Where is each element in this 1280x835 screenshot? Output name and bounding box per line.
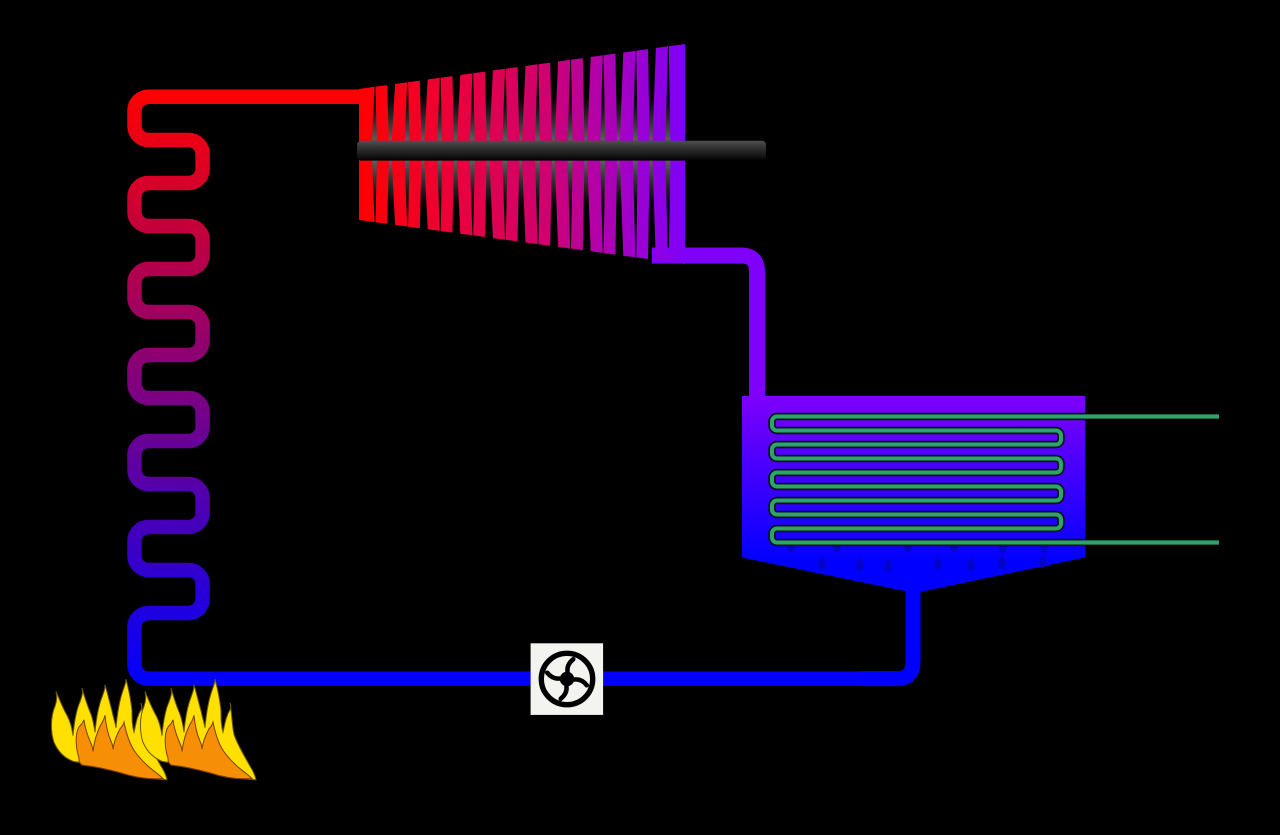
pipe: condenser outlet riser [862, 589, 913, 679]
turbine shaft [357, 141, 766, 161]
turbine U1 blades [359, 44, 685, 264]
pump P1 impeller [541, 653, 592, 704]
cooling coil outline [772, 417, 1085, 543]
flames group 2 [140, 679, 256, 780]
cooling coil [772, 417, 1085, 543]
flames group 1 [51, 679, 167, 780]
pump P1 box [531, 643, 604, 715]
turbine hub glow upper [359, 96, 685, 141]
coolant outlet line [1083, 414, 1219, 418]
pipe: steam line turbine to condenser [652, 256, 757, 401]
condensate drops [787, 538, 1048, 572]
turbine hub glow lower [359, 161, 685, 208]
coolant inlet line [1083, 540, 1219, 544]
boiler coil and feed/condensate pipe [135, 97, 881, 679]
condenser body [742, 396, 1085, 591]
